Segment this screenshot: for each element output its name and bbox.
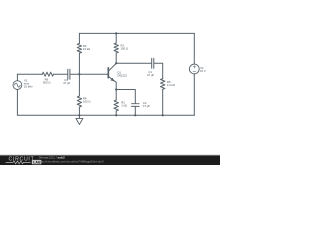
svg-text:http://circuitlab.com/circuit/: http://circuitlab.com/circuit/cb7496bgp5… <box>39 160 104 164</box>
transistor Q1 collector lead <box>108 63 116 71</box>
wire V2 bottom to rail <box>193 74 195 115</box>
wire emitter node to R2 <box>115 90 117 101</box>
resistor R5 <box>161 79 165 90</box>
CircuitLab logo LAB box <box>32 160 42 164</box>
footer bar <box>0 155 220 165</box>
capacitor C1 <box>152 58 154 68</box>
node base divider junction <box>78 73 80 75</box>
wire top rail <box>79 32 194 34</box>
svg-text:1 kΩ: 1 kΩ <box>121 103 127 107</box>
wire R2 bottom to rail <box>115 111 117 115</box>
resistor R1 <box>114 43 118 53</box>
wire C2 bottom to rail <box>134 107 136 116</box>
ground symbol stem <box>78 115 80 118</box>
transistor Q1 base bar <box>107 68 109 78</box>
transistor Q1 emitter lead <box>108 76 116 89</box>
wire R5 bottom to rail <box>162 89 164 115</box>
wire R6 to C3 <box>54 73 68 75</box>
wire collector to C1 <box>116 62 151 64</box>
wire C3 to base <box>70 73 108 75</box>
voltage source V2 circle <box>189 64 199 74</box>
resistor R4 <box>77 96 81 107</box>
svg-text:2N2222: 2N2222 <box>117 73 127 77</box>
ground symbol triangle <box>76 118 83 124</box>
wire V1 to R6 <box>17 73 42 75</box>
svg-text:15 V: 15 V <box>200 69 206 73</box>
wire R1 top stub <box>115 33 117 43</box>
voltage source V1 circle <box>13 81 22 90</box>
wire C1 to R5 corner <box>154 63 163 78</box>
svg-text:10 kΩ: 10 kΩ <box>83 47 90 51</box>
wire R4 node to zigzag <box>78 74 80 96</box>
svg-text:100 Ω: 100 Ω <box>83 99 91 103</box>
resistor R2 <box>114 100 118 111</box>
node C2 rail junction <box>134 114 136 116</box>
resistor R6 <box>42 72 53 76</box>
V2 minus sign <box>193 70 196 72</box>
resistor R3 <box>77 44 81 54</box>
svg-text:500 Ω: 500 Ω <box>43 81 51 85</box>
svg-text:47 µF: 47 µF <box>147 73 154 77</box>
node R5 rail junction <box>162 114 164 116</box>
svg-text:47 µF: 47 µF <box>63 81 70 85</box>
wire R4 bottom to rail <box>78 107 80 115</box>
wire R3 bottom to node <box>78 53 80 74</box>
capacitor C2 <box>132 104 140 107</box>
svg-text:47 µF: 47 µF <box>143 104 150 108</box>
svg-text:10 kHz: 10 kHz <box>24 84 33 88</box>
capacitor C3 <box>68 69 70 79</box>
transistor Q1 emitter arrow <box>110 78 114 81</box>
wire V1 bottom to rail <box>16 90 18 116</box>
V2 plus sign <box>193 66 196 69</box>
V1 sine glyph <box>15 83 21 87</box>
wire R3 top stub <box>78 33 80 43</box>
wire V1 top stub <box>16 74 18 81</box>
wire bottom rail <box>17 114 194 116</box>
svg-text:100 Ω: 100 Ω <box>121 47 129 51</box>
node emitter junction <box>115 88 117 90</box>
CircuitLab logo resistor glyph <box>6 161 31 164</box>
node top rail junction <box>115 32 117 34</box>
node collector junction <box>115 62 117 64</box>
svg-text:2.2 kΩ: 2.2 kΩ <box>167 83 175 87</box>
node R2 rail junction <box>115 114 117 116</box>
wire R1 bottom to collector node <box>115 53 117 63</box>
wire V2 top stub <box>193 33 195 64</box>
node ground junction <box>78 114 80 116</box>
wire emitter node to C2 <box>116 90 135 104</box>
